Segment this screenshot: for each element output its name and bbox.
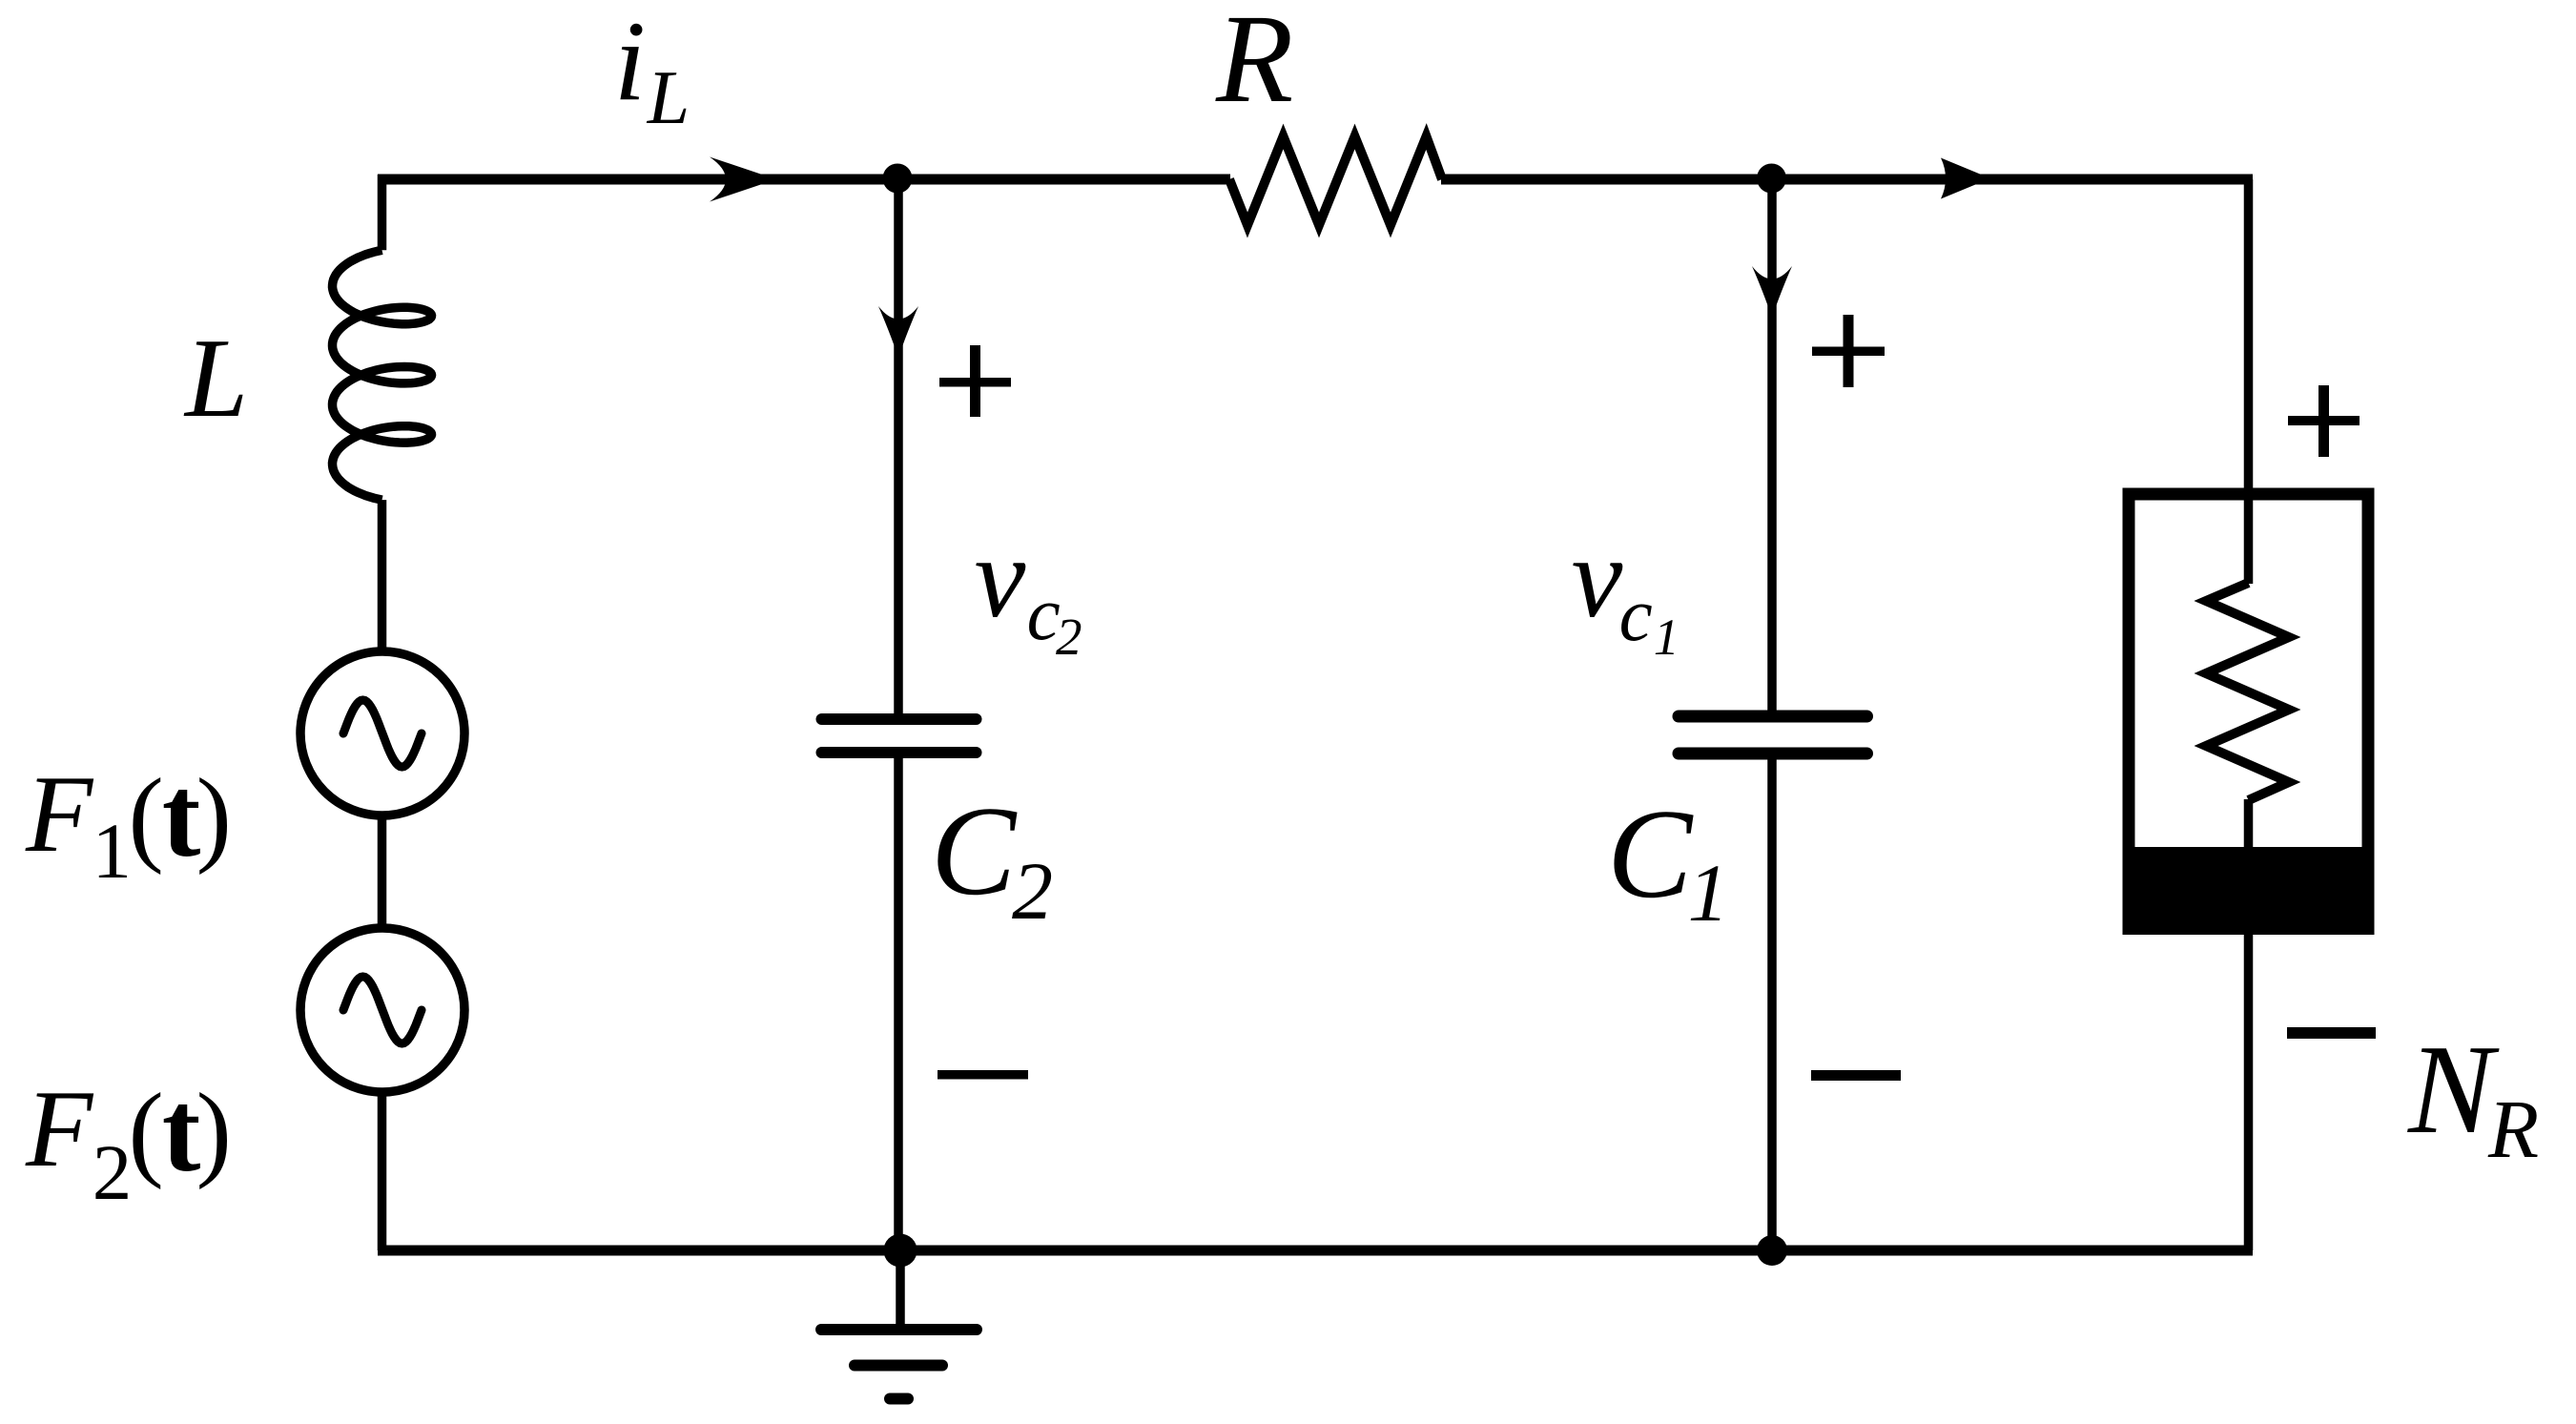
svg-text:R: R — [1215, 0, 1293, 129]
svg-text:(: ( — [129, 1072, 164, 1190]
wire bottom horizontal — [378, 1246, 2253, 1256]
svg-text:F: F — [25, 753, 94, 875]
minus sign of vc2 — [938, 1070, 1028, 1080]
source F2 sine symbol — [343, 977, 422, 1043]
wire top middle from node A to resistor R — [897, 175, 1230, 185]
minus sign of NR — [2287, 1027, 2376, 1039]
svg-text:(: ( — [129, 757, 164, 876]
wire right vertical bottom (NR box to bottom-right corner) — [2244, 933, 2254, 1250]
svg-text:1: 1 — [1654, 609, 1680, 666]
wire left vertical bottom (source F2 to bottom-left corner) — [378, 1092, 387, 1250]
svg-text:2: 2 — [1012, 845, 1053, 937]
wire C2 branch lower stem — [894, 758, 903, 1250]
wire C2 branch upper stem — [894, 179, 903, 714]
wire left vertical between source F1 and source F2 — [378, 815, 387, 932]
ground bar 2 — [855, 1360, 942, 1372]
wire top from resistor R to node B — [1441, 175, 1772, 185]
capacitor C2 bottom plate — [822, 747, 977, 758]
node dot bottom C1 junction — [1757, 1235, 1787, 1266]
svg-text:F: F — [25, 1068, 94, 1189]
svg-text:2: 2 — [93, 1128, 133, 1216]
ground bar 1 — [821, 1324, 977, 1335]
ground bar 3 — [890, 1393, 908, 1405]
NR box filled bottom bar — [2123, 847, 2375, 935]
node B dot (top C1 junction) — [1757, 164, 1786, 194]
svg-text:C: C — [1607, 783, 1694, 924]
current arrow on top wire right of node B — [1941, 158, 1990, 199]
NR inner resistor zigzag — [2206, 583, 2289, 800]
ground stem — [896, 1250, 905, 1330]
wire top-left horizontal from inductor branch to node A — [378, 175, 897, 185]
svg-text:2: 2 — [1056, 608, 1082, 666]
svg-text:): ) — [196, 757, 232, 876]
source F1 sine symbol — [343, 700, 422, 767]
resistor R — [1229, 136, 1442, 225]
svg-text:L: L — [183, 315, 248, 441]
svg-text:C: C — [931, 780, 1018, 921]
current arrow down C1 branch — [1752, 266, 1792, 318]
nonlinear resistor NR box outline — [2129, 494, 2368, 914]
svg-text:v: v — [975, 514, 1026, 642]
source F2 circle — [300, 928, 464, 1092]
svg-text:): ) — [196, 1072, 232, 1190]
node A dot (top C2 junction) — [883, 164, 913, 194]
plus sign of vc1 — [1812, 347, 1885, 357]
svg-text:i: i — [614, 0, 646, 124]
NR inner stem top — [2244, 496, 2254, 584]
capacitor C1 top plate — [1679, 711, 1867, 723]
svg-text:R: R — [2487, 1083, 2539, 1175]
node dot bottom C2 junction — [884, 1234, 917, 1268]
svg-text:v: v — [1572, 514, 1623, 642]
plus sign of NR — [2288, 416, 2360, 425]
minus sign of vc1 — [1811, 1070, 1901, 1081]
plus sign of vc2 — [939, 378, 1011, 387]
wire left vertical between inductor and source F1 — [378, 500, 387, 655]
source F1 circle — [300, 651, 464, 815]
wire C1 branch lower stem — [1767, 759, 1777, 1250]
capacitor C1 bottom plate — [1679, 748, 1867, 760]
svg-text:1: 1 — [93, 807, 133, 895]
wire top right from node B to top-right corner — [1772, 175, 2254, 185]
NR inner stem bottom — [2244, 799, 2254, 849]
svg-text:1: 1 — [1688, 847, 1729, 939]
current arrow down C2 branch — [878, 306, 918, 358]
svg-text:N: N — [2407, 1019, 2500, 1160]
current arrow iL on top wire — [710, 157, 776, 202]
svg-text:L: L — [647, 56, 690, 140]
wire C1 branch upper stem — [1767, 179, 1777, 712]
wire left vertical top (corner to inductor) — [378, 175, 387, 250]
inductor L coil — [333, 250, 432, 500]
wire right vertical top (corner to NR box) — [2244, 179, 2254, 494]
capacitor C2 top plate — [822, 713, 977, 725]
svg-text:c: c — [1619, 574, 1653, 657]
